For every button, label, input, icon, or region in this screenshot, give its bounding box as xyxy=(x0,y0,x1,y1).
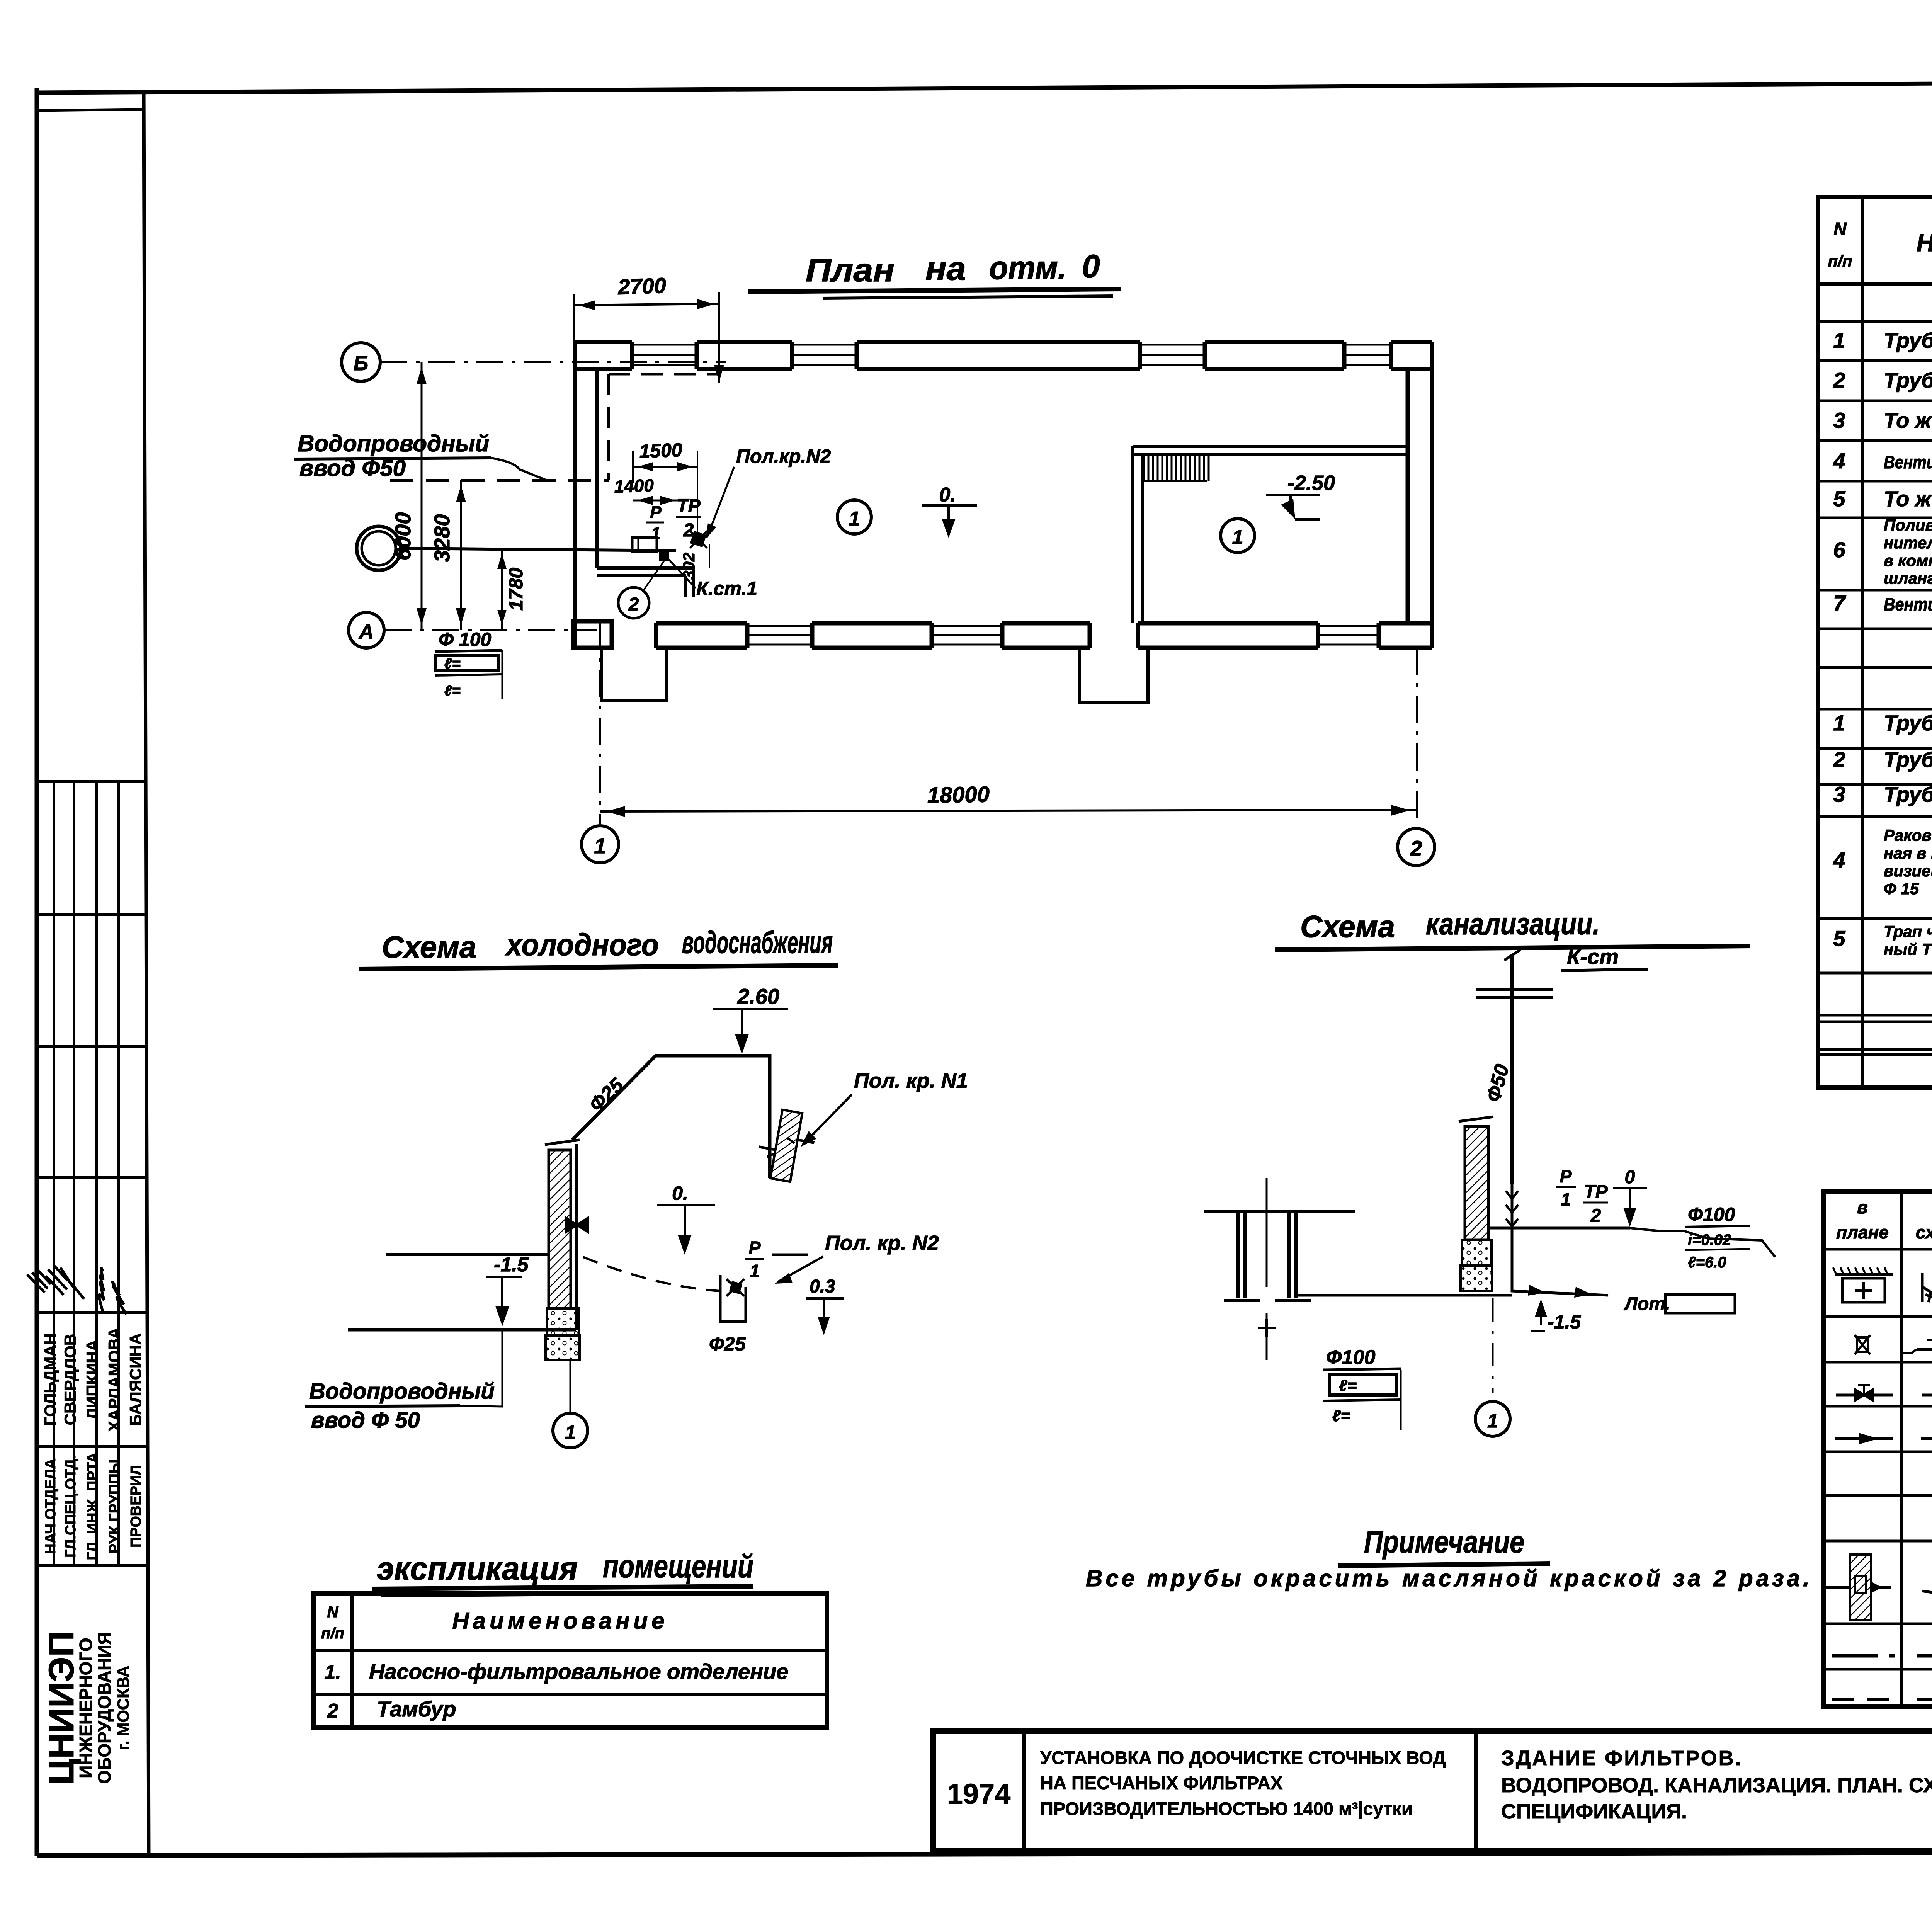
svg-text:шлангом ℓ=10м: шлангом ℓ=10м xyxy=(1884,569,1932,587)
svg-text:Водопроводный: Водопроводный xyxy=(298,430,489,456)
stamp column top cell line xyxy=(37,109,145,111)
svg-text:отм.: отм. xyxy=(989,250,1066,286)
svg-text:2: 2 xyxy=(1410,836,1422,861)
cw axis circle 1 xyxy=(570,1360,571,1414)
svg-text:п/п: п/п xyxy=(321,1625,344,1642)
svg-text:Все трубы окрасить масляной: Все трубы окрасить масляной краской за 2… xyxy=(1086,1565,1813,1591)
legend symbol valve plan xyxy=(1836,1394,1893,1397)
svg-text:3: 3 xyxy=(1833,782,1845,806)
stamp table section lines xyxy=(37,780,146,783)
axis circle 2 room xyxy=(618,587,649,618)
svg-text:Лот.: Лот. xyxy=(1624,1294,1670,1314)
svg-text:Труба Ф 50: Труба Ф 50 xyxy=(1884,328,1932,352)
svg-text:Ф 15: Ф 15 xyxy=(1884,879,1919,898)
svg-text:ГЛ.СПЕЦ.ОТД.: ГЛ.СПЕЦ.ОТД. xyxy=(63,1455,79,1558)
legend symbol sewer line scheme xyxy=(1917,1654,1932,1658)
dimension 6000 vertical xyxy=(421,362,423,630)
axis line 1 vertical xyxy=(599,622,601,824)
title block frame xyxy=(933,1731,1932,1851)
svg-text:Р: Р xyxy=(749,1238,761,1258)
svg-text:ℓ=6.0: ℓ=6.0 xyxy=(1688,1254,1726,1271)
legend symbol transition scheme xyxy=(1921,1437,1932,1440)
axis line 2 vertical xyxy=(1416,648,1418,825)
svg-text:Р: Р xyxy=(1560,1166,1572,1186)
svg-text:18000: 18000 xyxy=(927,782,990,808)
svg-text:Р: Р xyxy=(650,503,662,522)
svg-text:0.: 0. xyxy=(939,484,956,506)
plan top wall xyxy=(575,340,632,344)
legend symbol watering tap scheme xyxy=(1918,1547,1932,1628)
svg-text:Тамбур: Тамбур xyxy=(377,1697,456,1721)
svg-text:ЗДАНИЕ ФИЛЬТРОВ.: ЗДАНИЕ ФИЛЬТРОВ. xyxy=(1501,1747,1743,1770)
svg-text:1: 1 xyxy=(594,834,606,858)
svg-text:0.: 0. xyxy=(672,1182,688,1204)
legend symbol trap scheme xyxy=(1902,1340,1932,1353)
svg-text:1500: 1500 xyxy=(639,439,682,462)
svg-text:6000: 6000 xyxy=(391,512,415,560)
svg-text:БАЛЯСИНА: БАЛЯСИНА xyxy=(126,1333,145,1426)
svg-text:ℓ=: ℓ= xyxy=(1339,1376,1357,1395)
svg-text:-1.5: -1.5 xyxy=(494,1254,529,1276)
stamp table row dividers (vertical) xyxy=(53,781,55,1566)
svg-text:2: 2 xyxy=(1833,368,1845,392)
svg-text:5: 5 xyxy=(1833,926,1845,951)
svg-text:К-ст: К-ст xyxy=(1567,944,1619,969)
legend symbol watering tap plan xyxy=(1826,1555,1891,1620)
svg-text:5: 5 xyxy=(1833,487,1845,511)
svg-text:ℓ=: ℓ= xyxy=(1332,1407,1350,1425)
svg-text:Насосно-фильтровальное отдел: Насосно-фильтровальное отделение xyxy=(369,1659,788,1684)
svg-text:1: 1 xyxy=(1833,328,1845,352)
sewer underfloor drain xyxy=(1512,1228,1608,1295)
materials table column lines xyxy=(1861,197,1864,1088)
leader line from stack to label 2 xyxy=(643,561,664,590)
svg-text:СВЕРДЛОВ: СВЕРДЛОВ xyxy=(61,1334,79,1425)
explication table frame xyxy=(313,1593,827,1728)
svg-text:К.ст.1: К.ст.1 xyxy=(696,578,757,599)
svg-text:помещений: помещений xyxy=(603,1548,753,1584)
svg-text:2: 2 xyxy=(1590,1206,1601,1226)
svg-text:4: 4 xyxy=(1833,449,1845,473)
svg-text:Вентиль муфтовый запорный Ф25: Вентиль муфтовый запорный Ф25 xyxy=(1884,452,1932,472)
svg-text:холодного: холодного xyxy=(505,927,659,962)
svg-text:ПРОВЕРИЛ: ПРОВЕРИЛ xyxy=(128,1465,144,1548)
svg-text:Труба " Ф 50 ": Труба " Ф 50 " xyxy=(1884,782,1932,806)
legend table frame xyxy=(1824,1192,1932,1706)
svg-text:НАЧ ОТДЕЛА: НАЧ ОТДЕЛА xyxy=(43,1458,59,1554)
axis circle А xyxy=(349,612,384,648)
svg-text:То же Ф15: То же Ф15 xyxy=(1884,487,1932,511)
sewer manhole xyxy=(1204,1210,1355,1213)
svg-text:Схема: Схема xyxy=(382,930,476,964)
svg-text:Схема: Схема xyxy=(1300,909,1395,944)
sewer floor pipe xyxy=(1488,1227,1630,1230)
svg-text:То же " Ф 15: То же " Ф 15 xyxy=(1884,408,1932,432)
svg-text:ЛИПКИНА: ЛИПКИНА xyxy=(83,1340,101,1419)
plan entry porch left xyxy=(602,648,667,700)
svg-text:Трап чугунный эмалирован-: Трап чугунный эмалирован- xyxy=(1884,922,1932,941)
svg-text:УСТАНОВКА ПО ДООЧИСТКЕ СТОЧНЫХ: УСТАНОВКА ПО ДООЧИСТКЕ СТОЧНЫХ ВОД xyxy=(1040,1747,1446,1768)
dimension 1500 xyxy=(633,466,697,468)
dimension 3280 vertical xyxy=(460,480,462,630)
cw wall hatched xyxy=(549,1150,571,1308)
svg-text:6: 6 xyxy=(1833,538,1845,562)
svg-text:ная в комплекте с сифоном-ре-: ная в комплекте с сифоном-ре- xyxy=(1884,844,1932,862)
cw tap N2 assembly xyxy=(720,1275,746,1322)
materials table outer frame xyxy=(1818,197,1932,1088)
sewer stack K.st.1 symbol xyxy=(659,551,669,561)
legend table row lines xyxy=(1824,1248,1932,1251)
plan dashed pipe vertical xyxy=(607,374,610,480)
svg-text:Пол.кр.N2: Пол.кр.N2 xyxy=(736,446,831,467)
sewer revision marks on stack xyxy=(1511,1184,1514,1228)
svg-text:1: 1 xyxy=(1487,1410,1498,1432)
sewer roof lines xyxy=(1476,988,1553,991)
svg-text:1400: 1400 xyxy=(614,475,655,497)
plan tambour wall xyxy=(597,566,694,570)
svg-text:План: План xyxy=(806,252,895,288)
svg-text:на: на xyxy=(925,250,966,287)
sewer stack xyxy=(1510,954,1514,1184)
plan bottom wall windows xyxy=(747,625,812,627)
svg-text:3: 3 xyxy=(1833,408,1845,432)
svg-text:2700: 2700 xyxy=(617,273,667,299)
plan entry porch middle xyxy=(1079,648,1148,702)
dimension 2700 xyxy=(574,304,719,305)
cw pipe run xyxy=(572,1056,770,1178)
svg-text:ℓ=: ℓ= xyxy=(444,656,461,672)
dimension 18000 line xyxy=(600,810,1416,811)
cw inlet pipe xyxy=(348,1328,576,1332)
svg-text:РУК.ГРУППЫ: РУК.ГРУППЫ xyxy=(107,1459,123,1553)
svg-text:1: 1 xyxy=(1561,1189,1571,1209)
sewer axis circle 1 xyxy=(1492,1298,1494,1393)
legend symbol sewer line plan xyxy=(1832,1654,1895,1658)
legend symbol valve scheme xyxy=(1922,1394,1932,1397)
sewer outfall line xyxy=(401,548,676,551)
svg-text:-1.5: -1.5 xyxy=(1548,1311,1581,1333)
axis line А xyxy=(384,629,597,631)
room circle 1 left xyxy=(837,500,871,534)
svg-text:1974: 1974 xyxy=(947,1778,1011,1810)
svg-text:нительной цапковой головкой: нительной цапковой головкой xyxy=(1884,534,1932,552)
svg-text:-2.50: -2.50 xyxy=(1287,471,1335,495)
svg-text:1780: 1780 xyxy=(505,568,527,611)
svg-text:Вентиль-фланцевый запорн. Ф40: Вентиль-фланцевый запорн. Ф40 xyxy=(1884,594,1932,614)
svg-text:визией и водоразборным краном: визией и водоразборным краном xyxy=(1884,862,1932,880)
svg-text:в комплекте с резиновым: в комплекте с резиновым xyxy=(1884,551,1932,570)
axis circle 2 xyxy=(1398,828,1435,866)
svg-text:N: N xyxy=(327,1604,339,1621)
svg-text:2: 2 xyxy=(628,594,639,615)
svg-text:0: 0 xyxy=(1082,248,1100,284)
svg-text:i=0.02: i=0.02 xyxy=(1688,1232,1731,1249)
svg-text:ГЛ. ИНЖ. ПРТА: ГЛ. ИНЖ. ПРТА xyxy=(85,1452,101,1560)
svg-text:0.3: 0.3 xyxy=(810,1276,835,1297)
page frame top border xyxy=(37,80,1932,93)
svg-text:Примечание: Примечание xyxy=(1364,1524,1524,1560)
svg-text:экспликация: экспликация xyxy=(377,1550,578,1587)
svg-text:схемах: схемах xyxy=(1916,1222,1932,1242)
dimension 1400 xyxy=(633,500,680,502)
axis circle Б xyxy=(342,343,380,381)
svg-text:Ф25: Ф25 xyxy=(709,1333,746,1355)
svg-text:1: 1 xyxy=(849,508,860,530)
svg-text:Наименование: Наименование xyxy=(1917,229,1932,257)
stamp signatures xyxy=(24,1267,54,1294)
svg-text:N: N xyxy=(1833,219,1847,239)
water inlet dashed pipe xyxy=(390,479,609,482)
sewer wall hatched xyxy=(1465,1126,1488,1240)
svg-text:ГОЛЬДМАН: ГОЛЬДМАН xyxy=(41,1333,59,1426)
svg-text:2: 2 xyxy=(1833,747,1845,772)
legend symbol water line scheme xyxy=(1917,1698,1932,1701)
svg-text:1.: 1. xyxy=(324,1661,341,1684)
svg-text:Раковина стальная эмалирован-: Раковина стальная эмалирован- xyxy=(1884,826,1932,844)
svg-text:Наименование: Наименование xyxy=(452,1608,668,1634)
dimension 1780 vertical xyxy=(501,548,503,630)
svg-text:А: А xyxy=(358,621,374,643)
svg-text:1: 1 xyxy=(565,1422,576,1443)
svg-text:Б: Б xyxy=(354,352,368,375)
svg-text:302: 302 xyxy=(680,553,698,580)
cw wall tap N1 xyxy=(753,1107,819,1185)
title block verticals xyxy=(1022,1731,1026,1851)
watering tap plan symbol xyxy=(690,531,707,548)
materials table row lines xyxy=(1818,320,1932,323)
svg-text:Ф100: Ф100 xyxy=(1688,1204,1735,1225)
sink plan xyxy=(632,538,657,551)
plan partition wall room 1 xyxy=(1131,446,1134,623)
legend symbol sink scheme xyxy=(1922,1273,1932,1302)
sewer manhole cross ticks xyxy=(1258,1319,1276,1337)
svg-text:ТР: ТР xyxy=(1584,1182,1608,1202)
plan dashed pipe top xyxy=(609,373,719,376)
svg-text:ХАРЛАМОВА: ХАРЛАМОВА xyxy=(105,1327,123,1432)
legend symbol sink plan xyxy=(1835,1273,1893,1276)
axis line Б xyxy=(380,361,726,363)
stamp column right edge xyxy=(144,90,149,1856)
svg-text:г. МОСКВА: г. МОСКВА xyxy=(114,1666,132,1750)
plan top wall windows xyxy=(632,344,697,346)
svg-text:Ф 100: Ф 100 xyxy=(439,629,492,650)
sewer well xyxy=(357,526,401,570)
svg-text:1: 1 xyxy=(1833,711,1845,735)
svg-text:3280: 3280 xyxy=(430,514,454,562)
svg-text:НА ПЕСЧАНЫХ ФИЛЬТРАХ: НА ПЕСЧАНЫХ ФИЛЬТРАХ xyxy=(1040,1773,1282,1793)
svg-text:ОБОРУДОВАНИЯ: ОБОРУДОВАНИЯ xyxy=(94,1632,114,1784)
svg-text:канализации.: канализации. xyxy=(1426,907,1600,941)
svg-text:Труба ЧР Ф100 ( Выпуск): Труба ЧР Ф100 ( Выпуск) xyxy=(1884,711,1932,735)
cw foundation xyxy=(547,1308,579,1335)
axis circle 1 xyxy=(582,826,619,863)
svg-text:4: 4 xyxy=(1833,848,1845,872)
svg-text:ЦНИИЭП: ЦНИИЭП xyxy=(42,1631,81,1784)
svg-text:7: 7 xyxy=(1833,591,1846,615)
sewer manhole axis xyxy=(1266,1178,1268,1287)
svg-text:Труба ЧР Ф100 ( сеть): Труба ЧР Ф100 ( сеть) xyxy=(1884,747,1932,772)
svg-text:СПЕЦИФИКАЦИЯ.: СПЕЦИФИКАЦИЯ. xyxy=(1501,1800,1687,1823)
plan bottom wall xyxy=(656,621,747,626)
svg-text:Пол. кр. N1: Пол. кр. N1 xyxy=(854,1069,968,1092)
svg-text:ℓ=: ℓ= xyxy=(444,683,461,699)
svg-text:2.60: 2.60 xyxy=(737,984,779,1009)
svg-text:ный ТК Ф100: ный ТК Ф100 xyxy=(1884,940,1932,958)
svg-text:ПРОИЗВОДИТЕЛЬНОСТЬЮ 1400 м³|су: ПРОИЗВОДИТЕЛЬНОСТЬЮ 1400 м³|сутки xyxy=(1040,1798,1413,1819)
svg-text:плане: плане xyxy=(1836,1222,1889,1242)
cw dashed connection xyxy=(583,1257,720,1291)
page frame left border xyxy=(35,88,39,1856)
page frame bottom border xyxy=(37,1852,1932,1856)
svg-text:Водопроводный: Водопроводный xyxy=(309,1379,495,1404)
plan stairs hatch xyxy=(1143,456,1145,481)
cw riser xyxy=(575,1144,578,1330)
svg-text:водоснабжения: водоснабжения xyxy=(682,925,833,959)
svg-text:в: в xyxy=(1857,1197,1868,1217)
legend symbol trap plan xyxy=(1855,1335,1870,1354)
svg-text:ввод Ф 50: ввод Ф 50 xyxy=(311,1408,420,1433)
plan left wall xyxy=(573,342,577,648)
svg-text:ТР: ТР xyxy=(677,496,701,516)
svg-text:п/п: п/п xyxy=(1828,252,1852,270)
legend symbol water line plan xyxy=(1832,1698,1895,1701)
svg-text:ИНЖЕНЕРНОГО: ИНЖЕНЕРНОГО xyxy=(76,1638,96,1778)
svg-text:1: 1 xyxy=(1232,526,1243,549)
sewer pipe to manhole xyxy=(1296,1294,1512,1297)
svg-text:Пол. кр. N2: Пол. кр. N2 xyxy=(825,1232,939,1255)
svg-text:Труба а-ц Ф 25: Труба а-ц Ф 25 xyxy=(1884,368,1932,392)
room circle 1 right xyxy=(1221,519,1255,553)
svg-text:1: 1 xyxy=(750,1261,760,1281)
legend symbol transition plan xyxy=(1835,1437,1893,1440)
svg-text:ВОДОПРОВОД. КАНАЛИЗАЦИЯ. ПЛАН.: ВОДОПРОВОД. КАНАЛИЗАЦИЯ. ПЛАН. СХЕМЫ. xyxy=(1501,1774,1932,1797)
svg-text:2: 2 xyxy=(327,1700,338,1722)
svg-text:Поливочный кран Ф 25 с соеди-: Поливочный кран Ф 25 с соеди- xyxy=(1884,516,1932,534)
cw ground line xyxy=(386,1253,549,1256)
legend table verticals xyxy=(1900,1192,1903,1706)
sewer foundation xyxy=(1462,1240,1492,1266)
svg-text:Ф100: Ф100 xyxy=(1326,1346,1375,1369)
plan bottom-left wall piece xyxy=(573,621,612,648)
svg-text:0: 0 xyxy=(1625,1167,1635,1187)
plan right wall xyxy=(1430,342,1434,648)
cw valve on riser xyxy=(566,1218,588,1232)
